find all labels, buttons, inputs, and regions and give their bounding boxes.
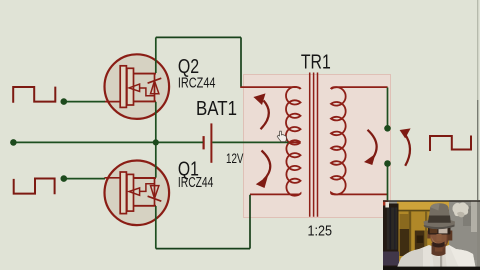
webcam top dark line: [383, 200, 480, 202]
hat brim: [424, 219, 456, 229]
current direction arrow secondary inner: [364, 130, 377, 165]
Q2 body diode branch: [154, 74, 156, 102]
Q1 substrate arrow: [129, 188, 140, 195]
shirt collar/placket: [432, 251, 447, 270]
Q2 gate plate: [120, 66, 126, 108]
cabinet dark panel right: [415, 231, 425, 257]
Q1 drain pin line: [134, 177, 157, 179]
webcam yellow cabinet: [397, 202, 449, 270]
node secondary top: [384, 125, 391, 132]
mouth/chin: [435, 248, 443, 252]
primary winding lower: [286, 140, 300, 195]
Q1 channel plate: [127, 174, 134, 211]
junction dots: [10, 98, 391, 182]
wire junction to Q1 drain: [155, 142, 157, 177]
selection highlight box around transformer: [244, 75, 391, 218]
battery long plate: [210, 123, 212, 162]
mouse cursor: [277, 131, 286, 142]
Q1 body diode triangle: [151, 186, 159, 199]
wire gate Q2: [64, 101, 105, 103]
square wave output glyph right: [430, 136, 471, 152]
Q2 body diode triangle: [151, 81, 159, 94]
person face: [430, 220, 449, 247]
svg-text:12V: 12V: [226, 151, 244, 166]
svg-text:IRCZ44: IRCZ44: [178, 74, 216, 91]
Q2 gate pin line: [104, 101, 120, 103]
square wave stimulus glyph lower-left: [14, 179, 55, 195]
svg-text:1:25: 1:25: [308, 222, 333, 239]
core: [310, 73, 318, 217]
square wave stimulus glyph upper-left: [13, 87, 55, 103]
Q2 substrate link: [140, 88, 155, 96]
wire top horizontal: [156, 36, 241, 38]
current direction arrow primary upper: [253, 93, 268, 129]
wire Q2 drain up: [155, 37, 157, 73]
Q2 body circle: [105, 54, 170, 119]
secondary bottom pin: [334, 193, 388, 195]
Q2 source pin line: [134, 100, 157, 102]
Q1 gate pin line: [104, 177, 120, 179]
nose: [437, 234, 442, 241]
battery short plate: [203, 136, 205, 149]
person shirt: [396, 245, 476, 270]
window edge line right: [477, 0, 478, 200]
moustache: [433, 242, 445, 248]
node middle wire left end: [10, 139, 17, 146]
wire secondary top to node: [387, 88, 389, 129]
cabinet dark panel left: [400, 229, 410, 256]
battery BAT1: [204, 123, 212, 162]
center tap pin: [288, 141, 301, 143]
wire bottom right vertical: [249, 195, 251, 249]
webcam red object top-left: [383, 200, 388, 206]
wire bottom horizontal: [156, 248, 250, 250]
webcam background wall: [383, 200, 480, 270]
secondary top pin: [331, 87, 388, 89]
webcam white flowers blob: [452, 202, 468, 216]
current direction arrow primary lower: [256, 151, 270, 189]
Q2 drain pin line: [134, 73, 157, 75]
svg-text:TR1: TR1: [301, 51, 331, 74]
person ears: [427, 231, 430, 239]
transistor Q1 (mirrored vertically): [104, 161, 169, 226]
primary bottom pin: [250, 193, 297, 195]
wire middle horizontal: [13, 141, 203, 143]
Q1 body circle: [105, 161, 170, 226]
junction center: [153, 139, 159, 145]
wire secondary bottom node down: [387, 164, 389, 202]
node lower stimulus: [61, 175, 68, 182]
secondary winding: [331, 87, 346, 194]
hat band: [428, 216, 451, 223]
webcam dark left furniture: [383, 204, 399, 270]
wire right vertical to primary: [240, 37, 242, 86]
primary top pin: [240, 87, 300, 89]
person neck: [432, 243, 446, 256]
glasses: [428, 226, 451, 235]
wires (green): [13, 37, 387, 248]
node upper stimulus: [61, 98, 68, 105]
Q1 source pin line: [134, 205, 157, 207]
Q2 substrate arrow: [129, 84, 140, 91]
labels: [178, 51, 332, 240]
current direction arrow secondary outer: [400, 128, 411, 165]
hat crown: [428, 203, 451, 222]
Q1 substrate link: [140, 184, 155, 192]
primary winding upper: [286, 87, 301, 145]
wire battery to center tap: [212, 141, 288, 143]
transformer TR1: [240, 73, 387, 217]
Q1 body diode branch: [154, 178, 156, 206]
webcam bottom dark strip: [383, 267, 480, 270]
webcam overlay: [383, 200, 480, 270]
Q2 channel plate: [127, 68, 134, 105]
Q1 body diode cathode bar: [148, 196, 162, 201]
wire gate Q1: [64, 178, 105, 180]
wire Q2 source down: [155, 102, 157, 143]
transistor Q2: [104, 54, 169, 119]
svg-text:IRCZ44: IRCZ44: [178, 174, 214, 191]
node secondary bottom: [384, 160, 391, 167]
Q1 gate plate: [120, 172, 126, 214]
wire Q1 source down: [155, 206, 157, 249]
svg-text:BAT1: BAT1: [196, 97, 237, 120]
Q2 body diode cathode bar: [148, 78, 162, 83]
